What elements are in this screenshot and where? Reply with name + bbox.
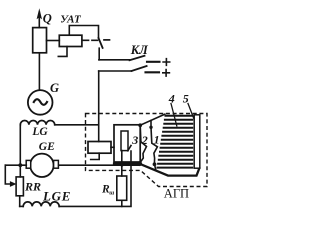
svg-text:4: 4: [168, 91, 175, 105]
svg-text:LG: LG: [31, 126, 48, 138]
svg-text:1: 1: [154, 133, 160, 147]
svg-text:GE: GE: [39, 141, 55, 153]
svg-text:УАТ: УАТ: [60, 13, 82, 25]
svg-text:LGE: LGE: [42, 188, 71, 203]
svg-text:RR: RR: [24, 179, 41, 193]
svg-text:ш: ш: [109, 190, 114, 196]
svg-text:3: 3: [131, 133, 138, 147]
svg-text:КЛ: КЛ: [130, 43, 148, 57]
svg-text:G: G: [50, 81, 59, 95]
svg-text:5: 5: [183, 91, 189, 105]
svg-text:АГП: АГП: [164, 186, 189, 200]
svg-text:Q: Q: [43, 12, 52, 26]
svg-text:2: 2: [141, 133, 148, 147]
